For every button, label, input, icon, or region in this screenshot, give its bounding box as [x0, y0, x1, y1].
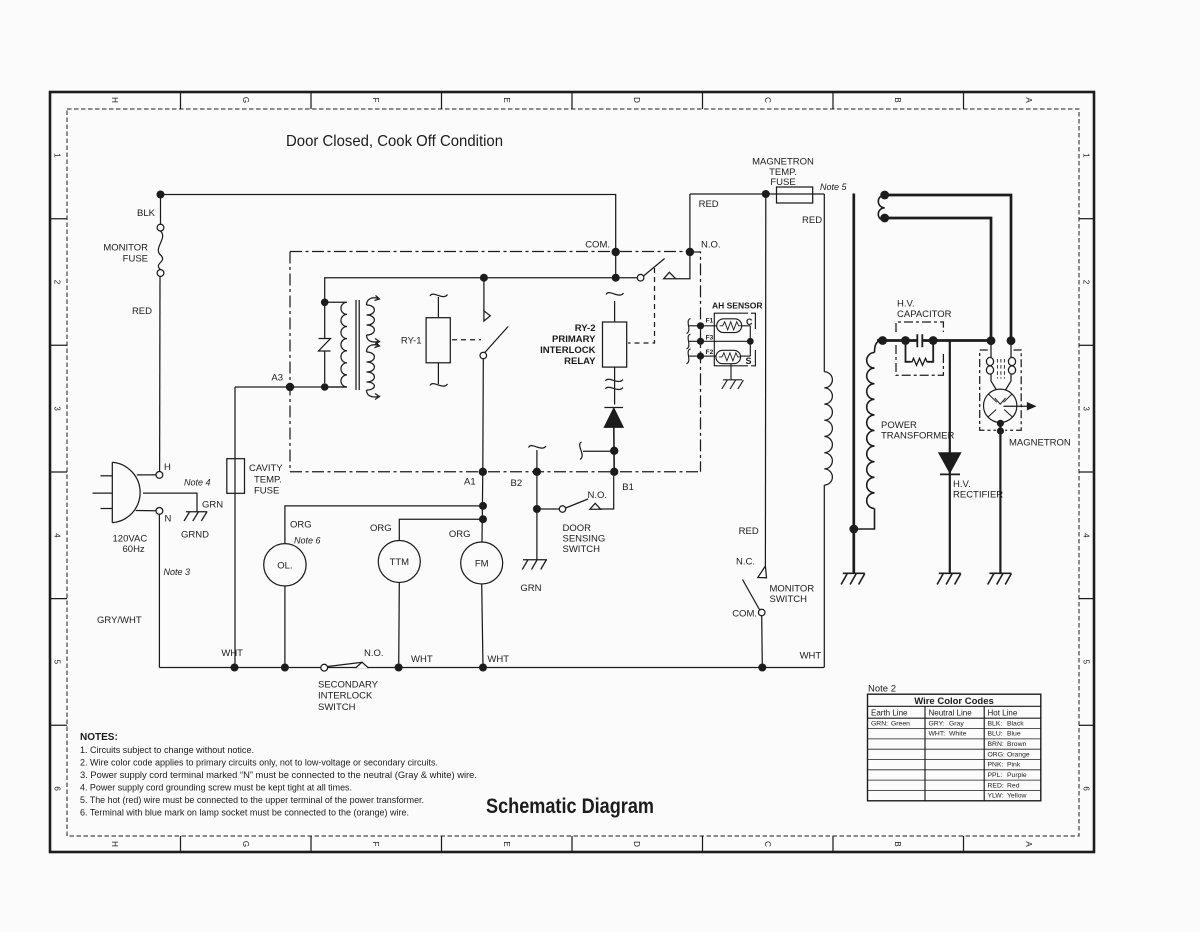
svg-text:FM: FM — [475, 559, 489, 570]
plug 120VAC — [112, 462, 140, 522]
svg-text:1: 1 — [1082, 153, 1091, 158]
svg-text:Note 4: Note 4 — [184, 478, 211, 488]
wire BLK down to monitor fuse — [160, 195, 162, 225]
node cavity fuse bottom — [231, 664, 239, 672]
thermistor RT2 — [716, 350, 741, 363]
wire N down to bottom bus — [158, 514, 160, 667]
svg-text:INTERLOCK: INTERLOCK — [318, 691, 373, 702]
AH sensor box outline — [714, 313, 755, 366]
svg-text:WHT:: WHT: — [929, 731, 946, 738]
relay coil RY-1 — [426, 318, 450, 363]
border tick right — [1079, 344, 1094, 346]
svg-text:CAVITY: CAVITY — [249, 463, 283, 474]
svg-text:H.V.: H.V. — [897, 299, 915, 310]
wire AH sensor ground lead — [730, 364, 732, 380]
ground power transformer — [841, 573, 865, 584]
wire magnetron to ground — [999, 423, 1001, 572]
node B1 — [610, 468, 618, 476]
svg-text:WHT: WHT — [800, 651, 822, 662]
svg-text:5: 5 — [53, 660, 62, 665]
node monitor switch top — [762, 190, 770, 198]
svg-text:3: 3 — [53, 406, 62, 411]
svg-text:4: 4 — [53, 533, 62, 538]
svg-text:F3: F3 — [706, 335, 714, 342]
svg-text:BLU:: BLU: — [988, 731, 1003, 738]
monitor switch pivot COM — [758, 609, 765, 616]
magnetron filament coil left — [986, 357, 993, 365]
svg-text:B1: B1 — [622, 482, 634, 493]
table cells — [871, 720, 1030, 799]
wire primary bottom to WHT bus — [823, 485, 825, 667]
power transformer primary winding — [824, 372, 832, 485]
svg-text:Orange: Orange — [1007, 751, 1030, 758]
node transformer primary top — [321, 299, 329, 307]
border tick left — [50, 724, 67, 726]
svg-text:N: N — [165, 514, 172, 525]
border tick right — [1079, 471, 1094, 473]
dashed linkage RY-1 — [452, 339, 481, 341]
wire TTM ORG up — [399, 519, 483, 540]
secondary interlock switch — [321, 664, 328, 671]
node HV winding bottom — [849, 525, 858, 534]
border tick right — [1079, 598, 1094, 600]
motor FM — [461, 542, 503, 584]
svg-text:WHT: WHT — [411, 654, 433, 665]
wire N.O. riser — [676, 252, 690, 279]
interlock dash-dot box bottom edge — [290, 471, 701, 473]
node filament bottom — [880, 214, 889, 223]
break hook F1 — [687, 319, 691, 334]
svg-text:NOTES:: NOTES: — [80, 732, 118, 743]
svg-text:WHT: WHT — [221, 648, 243, 659]
node magnetron box bottom — [997, 427, 1004, 434]
svg-text:2: 2 — [1082, 280, 1091, 285]
node RY1 switch top — [480, 274, 488, 282]
cavity temp fuse F2 — [227, 459, 245, 494]
svg-text:RED: RED — [802, 215, 822, 226]
diode HV rectifier — [939, 453, 961, 473]
node magnetron cathode — [997, 420, 1004, 427]
node N.O. — [686, 248, 694, 256]
svg-text:B: B — [893, 841, 902, 846]
svg-text:RY-2: RY-2 — [575, 323, 596, 334]
wire monitor COM to bus — [761, 616, 764, 668]
wire filament top to magnetron — [885, 195, 1011, 338]
svg-text:B: B — [893, 97, 902, 102]
svg-text:2: 2 — [53, 280, 62, 285]
wire RY-2 bottom lead — [614, 367, 616, 404]
motor OL — [264, 544, 306, 586]
dashed linkage RY-2 — [628, 268, 655, 343]
diode D1 — [604, 407, 623, 409]
svg-text:G: G — [241, 841, 250, 847]
node cap left — [901, 336, 910, 345]
svg-text:60Hz: 60Hz — [123, 544, 145, 555]
svg-text:A1: A1 — [464, 477, 476, 488]
border tick top — [310, 92, 312, 109]
filament winding — [878, 195, 884, 221]
svg-text:Note 6: Note 6 — [294, 536, 321, 546]
svg-text:H: H — [110, 97, 119, 103]
interlock dash-dot box top edge — [290, 251, 690, 253]
wire RY-1 top lead — [437, 297, 439, 318]
node door switch — [533, 505, 541, 513]
wire top bus 2 N.O. to fuse — [690, 193, 824, 195]
svg-text:ORG: ORG — [370, 523, 392, 534]
node magnetron lead right — [1007, 336, 1016, 345]
wire RY-1 bottom lead — [437, 363, 439, 384]
wire B2 stub up — [536, 450, 538, 472]
node cap right — [929, 336, 938, 345]
wire diode to B1 — [613, 427, 615, 472]
wire HV hot vertical — [852, 194, 855, 573]
border tick top — [571, 92, 573, 109]
plug prong middle — [93, 492, 113, 494]
svg-text:COM.: COM. — [585, 240, 610, 251]
svg-text:120VAC: 120VAC — [113, 534, 148, 545]
svg-text:1. Circuits subject to change: 1. Circuits subject to change without no… — [80, 745, 254, 755]
transformer T1 secondary upper — [367, 305, 375, 335]
inner dashed border — [67, 109, 1079, 836]
border tick top — [832, 92, 834, 109]
svg-text:MAGNETRON: MAGNETRON — [752, 157, 814, 168]
wire AH F2 row — [701, 355, 716, 357]
border tick bottom — [571, 836, 573, 852]
border tick top — [963, 92, 965, 109]
svg-text:Green: Green — [891, 720, 910, 727]
node B2 — [533, 468, 541, 476]
varistor Z — [319, 306, 331, 383]
wire transformer top — [325, 278, 641, 303]
svg-text:COM.: COM. — [732, 609, 757, 620]
door sensing switch pivot — [559, 506, 565, 512]
wire HV bus — [877, 339, 991, 342]
svg-text:GRN: GRN — [520, 583, 541, 594]
svg-text:GRN:: GRN: — [871, 720, 888, 727]
wire AH right side — [749, 326, 751, 356]
svg-text:White: White — [949, 731, 967, 738]
wire RED down right x824 — [823, 194, 825, 372]
border tick top — [180, 92, 182, 109]
node TTM bottom — [395, 664, 403, 672]
border tick top — [441, 92, 443, 109]
terminal N — [156, 508, 163, 515]
wire RY-2 top lead — [614, 301, 616, 322]
break squiggle RY-1 bottom — [430, 384, 448, 386]
monitor switch blade — [743, 580, 760, 611]
border tick left — [50, 471, 67, 473]
node AH right — [747, 338, 754, 345]
thermistor RT1 — [717, 319, 742, 333]
svg-text:Note 2: Note 2 — [868, 684, 896, 695]
svg-text:SWITCH: SWITCH — [770, 594, 808, 605]
svg-text:FUSE: FUSE — [123, 254, 148, 265]
node A3 — [286, 383, 294, 391]
motor TTM — [378, 541, 420, 583]
magnetron output arrow — [1004, 405, 1029, 407]
svg-text:5. The hot (red) wire must be: 5. The hot (red) wire must be connected … — [80, 795, 424, 805]
svg-text:OL.: OL. — [277, 561, 292, 572]
svg-text:N.O.: N.O. — [588, 490, 608, 501]
wire plug to H terminal — [137, 474, 156, 476]
magnetron temp fuse F3 — [777, 187, 813, 203]
svg-text:6: 6 — [53, 786, 62, 791]
wire B2 to GRN ground — [536, 509, 538, 560]
break hook F3 — [687, 334, 691, 349]
outer border frame — [50, 92, 1094, 852]
node AH F2 — [697, 353, 704, 360]
ground GRND — [184, 512, 207, 521]
svg-text:Neutral Line: Neutral Line — [929, 708, 973, 717]
svg-text:N.C.: N.C. — [736, 557, 755, 568]
wire bottom WHT bus — [159, 667, 824, 669]
magnetron filament lead left — [990, 344, 992, 357]
wire to door switch pivot — [537, 508, 560, 510]
wire COM riser — [615, 249, 617, 278]
border tick bottom — [441, 836, 443, 852]
magnetron dash-dot enclosure — [980, 350, 1022, 430]
resistor bleed branch — [906, 341, 934, 362]
svg-text:S: S — [746, 356, 752, 366]
magnetron filament lead right — [1010, 344, 1012, 357]
wire door switch to B1 — [601, 476, 614, 509]
node BLK junction — [157, 191, 165, 199]
svg-text:MAGNETRON: MAGNETRON — [1009, 438, 1071, 449]
svg-text:6: 6 — [1082, 786, 1091, 791]
svg-text:RY-1: RY-1 — [401, 336, 422, 347]
svg-text:GRN: GRN — [202, 500, 223, 511]
svg-text:RELAY: RELAY — [564, 356, 596, 367]
node HV winding top — [878, 336, 887, 345]
svg-text:Wire Color Codes: Wire Color Codes — [914, 696, 994, 707]
ground GRN — [522, 560, 547, 570]
magnetron core dashes — [997, 359, 1004, 379]
svg-text:5: 5 — [1082, 660, 1091, 665]
svg-text:C: C — [763, 97, 772, 103]
wire RED monitor fuse to plug H — [159, 276, 161, 471]
switch blade RY-2 — [644, 259, 665, 277]
interlock dash-dot box right edge — [690, 252, 701, 472]
wire FM top to A1 — [481, 472, 484, 542]
svg-text:4. Power supply cord grounding: 4. Power supply cord grounding screw mus… — [80, 783, 352, 793]
svg-text:Schematic Diagram: Schematic Diagram — [486, 794, 654, 818]
svg-text:GRY/WHT: GRY/WHT — [97, 615, 142, 626]
contact triangle monitor N.C. — [758, 566, 767, 578]
switch blade RY1 — [484, 327, 509, 355]
svg-text:SWITCH: SWITCH — [318, 702, 356, 713]
svg-text:4: 4 — [1082, 533, 1091, 538]
svg-text:F1: F1 — [706, 318, 714, 325]
break hook F2 — [687, 349, 691, 364]
svg-text:PNK:: PNK: — [988, 762, 1004, 769]
node transformer primary bottom — [321, 383, 329, 391]
svg-text:CAPACITOR: CAPACITOR — [897, 309, 952, 320]
svg-text:PPL:: PPL: — [988, 772, 1003, 779]
wire plug ground GRN — [143, 493, 197, 511]
break squiggle RY-2 bottom 1 — [606, 379, 624, 381]
svg-text:B2: B2 — [511, 478, 523, 489]
break squiggle RY-2 top — [606, 293, 624, 295]
svg-text:2. Wire color code applies to: 2. Wire color code applies to primary ci… — [80, 758, 438, 768]
contact triangle RY1 switch — [484, 311, 490, 321]
border tick bottom — [180, 836, 182, 852]
contact triangle RY-2 — [664, 272, 676, 279]
node magnetron lead left — [987, 336, 996, 345]
svg-text:BRN:: BRN: — [988, 741, 1004, 748]
svg-text:Gray: Gray — [949, 720, 964, 727]
svg-text:RED: RED — [699, 199, 719, 210]
svg-text:3: 3 — [1082, 406, 1091, 411]
node monitor switch bottom — [758, 664, 766, 672]
svg-text:F2: F2 — [706, 349, 714, 356]
interlock dash-dot box left edge — [289, 252, 291, 472]
svg-text:Note 3: Note 3 — [164, 567, 191, 577]
svg-text:N.O.: N.O. — [364, 648, 384, 659]
svg-text:E: E — [502, 97, 511, 102]
border tick bottom — [310, 836, 312, 852]
svg-text:FUSE: FUSE — [254, 486, 279, 497]
svg-text:Pink: Pink — [1007, 762, 1021, 769]
svg-text:6. Terminal with blue mark on: 6. Terminal with blue mark on lamp socke… — [80, 808, 409, 818]
svg-text:FUSE: FUSE — [770, 177, 795, 188]
svg-text:DOOR: DOOR — [563, 523, 592, 534]
border tick top — [702, 92, 704, 109]
switch RY-2 contact pivot — [637, 274, 644, 281]
magnetron filament converge left — [991, 374, 997, 390]
wire AH F1 row — [701, 325, 717, 327]
svg-text:BLK: BLK — [137, 208, 156, 219]
svg-text:SWITCH: SWITCH — [563, 544, 601, 555]
svg-text:TEMP.: TEMP. — [254, 475, 282, 486]
transformer T1 secondary lower — [367, 352, 375, 390]
svg-text:Hot Line: Hot Line — [988, 708, 1018, 717]
wire AH stub F2 — [689, 355, 700, 357]
svg-text:Brown: Brown — [1007, 741, 1026, 748]
border tick right — [1079, 724, 1094, 726]
svg-text:C: C — [746, 317, 753, 327]
wire AH stub F3 — [689, 340, 700, 342]
node AH F1 — [697, 322, 704, 329]
svg-text:RED: RED — [132, 306, 152, 317]
svg-text:ORG: ORG — [449, 529, 471, 540]
node AH F3 — [697, 338, 704, 345]
wire FM bottom — [482, 584, 483, 668]
svg-text:Door Closed, Cook Off Conditio: Door Closed, Cook Off Condition — [286, 133, 503, 150]
border tick right — [1079, 218, 1094, 220]
svg-text:Blue: Blue — [1007, 731, 1021, 738]
node RY2 COM riser — [612, 274, 620, 282]
svg-text:GRY:: GRY: — [929, 720, 945, 727]
svg-text:H.V.: H.V. — [953, 479, 971, 490]
magnetron anode X — [988, 394, 1013, 417]
door sensing switch blade — [566, 499, 588, 508]
transformer T1 core — [355, 300, 357, 390]
svg-text:POWER: POWER — [881, 420, 917, 431]
svg-text:H: H — [110, 841, 119, 847]
magnetron filament converge right — [1006, 374, 1012, 390]
wire stub left of B1 — [583, 450, 614, 452]
wire TTM bottom — [398, 583, 401, 668]
svg-text:MONITOR: MONITOR — [770, 584, 815, 595]
svg-text:D: D — [632, 841, 641, 847]
svg-text:N.O.: N.O. — [701, 240, 721, 251]
svg-text:A: A — [1024, 97, 1033, 103]
node A1 — [479, 468, 487, 476]
border tick bottom — [832, 836, 834, 852]
svg-text:Earth Line: Earth Line — [871, 708, 908, 717]
wire AH stub F1 — [689, 325, 700, 327]
node filament top — [880, 191, 889, 200]
svg-text:TTM: TTM — [390, 557, 410, 568]
wire HV rectifier vertical — [949, 341, 951, 573]
break squiggle RY-2 bottom 2 — [606, 387, 624, 389]
break squiggle B2 — [529, 446, 547, 448]
magnetron filament coil right — [1008, 357, 1015, 365]
svg-text:ORG:: ORG: — [988, 751, 1005, 758]
svg-text:SENSING: SENSING — [563, 534, 606, 545]
HV capacitor dash-dot box — [896, 322, 943, 375]
plug prong top — [101, 475, 113, 477]
svg-text:F: F — [371, 98, 380, 103]
transformer T1 primary winding — [325, 302, 347, 387]
ground magnetron — [988, 573, 1012, 584]
svg-text:Yellow: Yellow — [1007, 793, 1026, 800]
svg-text:Purple: Purple — [1007, 772, 1027, 779]
contact triangle door switch — [590, 503, 601, 509]
svg-text:H: H — [164, 462, 171, 473]
cavity temp fuse wire — [234, 387, 236, 668]
svg-text:G: G — [241, 97, 250, 103]
svg-text:A3: A3 — [271, 373, 283, 384]
svg-text:YLW:: YLW: — [988, 793, 1004, 800]
svg-text:INTERLOCK: INTERLOCK — [540, 345, 596, 356]
svg-text:D: D — [632, 97, 641, 103]
wire A3 horizontal — [235, 386, 347, 388]
node diode stub — [610, 447, 618, 455]
ground HV rectifier — [937, 573, 961, 584]
ground AH sensor — [722, 380, 744, 389]
relay coil RY-2 — [603, 322, 627, 367]
border tick left — [50, 598, 67, 600]
node FM bottom WHT — [479, 664, 487, 672]
node ORG bus 2 — [479, 515, 487, 523]
power transformer HV secondary winding — [857, 341, 883, 530]
node ORG bus 1 — [479, 502, 487, 510]
svg-text:Black: Black — [1007, 720, 1024, 727]
svg-text:RED:: RED: — [988, 782, 1004, 789]
svg-text:GRND: GRND — [181, 530, 209, 541]
svg-text:F: F — [371, 842, 380, 847]
wire OL ORG up — [285, 506, 483, 544]
wire OL bottom — [284, 586, 286, 668]
svg-text:SECONDARY: SECONDARY — [318, 680, 379, 691]
svg-text:ORG: ORG — [290, 520, 312, 531]
wire filament bottom to magnetron — [885, 218, 991, 338]
wire plug to N terminal — [136, 510, 156, 512]
monitor fuse MF1 — [157, 224, 164, 231]
svg-text:PRIMARY: PRIMARY — [552, 334, 596, 345]
wire color codes table frame — [868, 694, 1041, 801]
node OL bottom — [281, 664, 289, 672]
svg-text:3. Power supply cord terminal: 3. Power supply cord terminal marked “N”… — [80, 770, 477, 780]
wire AH F3 row — [701, 340, 751, 342]
svg-text:BLK:: BLK: — [988, 720, 1003, 727]
wire RY1 switch upper — [483, 278, 485, 311]
break squiggle stub — [580, 442, 582, 460]
svg-text:WHT: WHT — [487, 654, 509, 665]
svg-text:TRANSFORMER: TRANSFORMER — [881, 431, 955, 442]
border tick left — [50, 218, 67, 220]
